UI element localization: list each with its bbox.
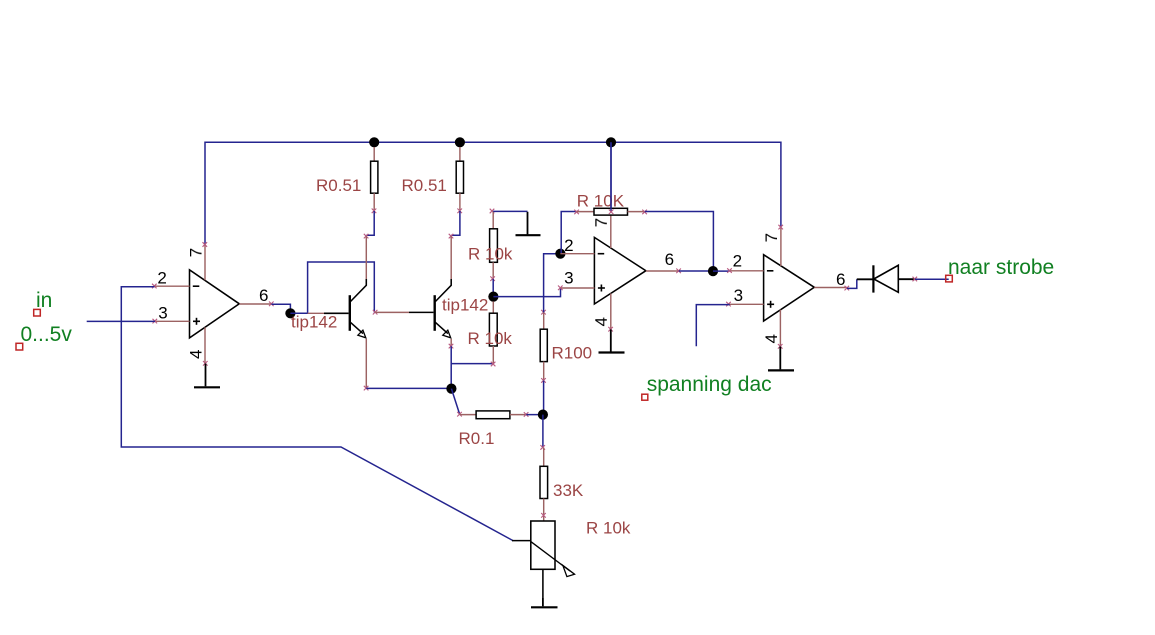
- svg-text:R 10k: R 10k: [468, 245, 513, 264]
- wire: diode to naar strobe terminal: [915, 278, 949, 280]
- svg-text:in: in: [36, 289, 52, 312]
- svg-text:4: 4: [187, 350, 206, 359]
- wire: R0.51 (right) to Q2 collector: [451, 211, 460, 235]
- wire: base node loop over Q1 to Q2 base: [290, 262, 374, 313]
- svg-text:6: 6: [259, 286, 268, 305]
- op-amp U2: [558, 212, 681, 332]
- diode D1: [857, 265, 917, 292]
- wire: R 10K right to U2 output node: [645, 212, 714, 272]
- svg-text:R0.51: R0.51: [402, 176, 447, 195]
- svg-text:4: 4: [592, 317, 611, 326]
- svg-text:R100: R100: [552, 344, 593, 363]
- wire: U2 pin7 over R 10K body: [610, 142, 612, 212]
- svg-text:R0.51: R0.51: [316, 176, 361, 195]
- resistor R0.51 (left): [371, 147, 378, 213]
- wire: R 10k upper to divider node: [492, 279, 494, 297]
- ground at potentiometer: [531, 598, 558, 607]
- wire: U1 pin 6 to Q1 base node: [272, 304, 291, 313]
- svg-text:7: 7: [187, 248, 206, 257]
- junction on top bus at R2: [455, 137, 465, 147]
- junction dot: emitter node: [446, 384, 456, 394]
- resistor R100: [540, 310, 547, 383]
- svg-text:R 10k: R 10k: [468, 329, 513, 348]
- svg-text:4: 4: [762, 334, 781, 343]
- svg-text:R 10k: R 10k: [586, 519, 631, 538]
- svg-text:tip142: tip142: [291, 313, 337, 332]
- svg-text:R0.1: R0.1: [459, 429, 495, 448]
- terminal square naar strobe: [946, 275, 953, 282]
- svg-text:2: 2: [564, 236, 573, 255]
- svg-text:2: 2: [157, 269, 166, 288]
- svg-text:2: 2: [733, 252, 742, 271]
- junction dot: Q1 base node: [285, 308, 295, 318]
- svg-text:7: 7: [592, 218, 611, 227]
- wire: emitter node to R0.1: [451, 389, 459, 415]
- junction dot: U2 output node: [708, 266, 718, 276]
- wire: output node to U3 pin 2: [713, 270, 730, 272]
- svg-text:tip142: tip142: [442, 296, 488, 315]
- wire: U2 pin 7 to top bus: [610, 142, 612, 214]
- potentiometer R 10k: [512, 521, 575, 598]
- wire: node down to 33K: [542, 415, 544, 448]
- wire: R0.51 (left) to Q1 collector: [366, 211, 374, 235]
- wire: top supply bus: [205, 142, 781, 244]
- svg-text:6: 6: [665, 250, 674, 269]
- resistor R 10k (lower): [489, 301, 497, 366]
- wire: U2 pin 6 to output node: [679, 270, 713, 272]
- junction on top bus at U2 pin7: [606, 137, 616, 147]
- op-amp U1: [152, 242, 274, 365]
- ground at U2 pin 4: [599, 329, 625, 352]
- wire: R100 bottom to R0.1 node: [543, 381, 545, 415]
- wire: input 0...5v to U1 pin 3: [87, 320, 155, 322]
- terminal square in: [34, 309, 41, 316]
- terminal square 0...5v: [16, 343, 23, 350]
- wire: U3 pin 6 to diode: [847, 279, 857, 288]
- resistor R0.1: [457, 411, 528, 419]
- resistor 33K: [540, 445, 548, 521]
- svg-text:3: 3: [158, 303, 167, 322]
- junction dot: U2 pin 2 node: [555, 249, 565, 259]
- junction dot: divider node: [488, 292, 498, 302]
- wire: feedback U1 pin 2 to potentiometer wiper: [121, 287, 513, 541]
- wire: U3 pin 3 stub: [696, 305, 729, 347]
- transistor Q1 tip142: [308, 234, 369, 391]
- resistor R 10K (feedback): [574, 208, 647, 215]
- svg-text:R 10K: R 10K: [577, 192, 625, 211]
- transistor Q2 tip142: [373, 234, 454, 349]
- svg-text:3: 3: [734, 286, 743, 305]
- wire: Q1 emitter to Q2 emitter node: [366, 387, 451, 389]
- junction dot: R0.1/R100/33K node: [538, 410, 548, 420]
- wire: divider node to U2 pin 3: [493, 288, 560, 297]
- svg-text:7: 7: [762, 233, 781, 242]
- svg-text:spanning dac: spanning dac: [647, 373, 772, 396]
- svg-text:6: 6: [836, 270, 845, 289]
- svg-text:33K: 33K: [553, 481, 584, 500]
- op-amp U3: [726, 225, 849, 349]
- ground at U3 pin 4: [768, 347, 794, 371]
- junction on top bus at R1: [369, 137, 379, 147]
- U2 pin 7 connection marker: [609, 210, 614, 215]
- svg-text:naar strobe: naar strobe: [948, 256, 1054, 279]
- resistor R0.51 (right): [456, 147, 463, 213]
- wire: R 10k upper to ground: [493, 210, 527, 212]
- resistor R 10k (upper, to ground): [490, 209, 498, 281]
- wire: U2 pin2 node up to R 10K feedback left: [561, 212, 577, 254]
- svg-text:3: 3: [564, 269, 573, 288]
- wire: R100 top to U2 pin 2 node: [544, 254, 561, 313]
- wire: R0.1 to R100/33K node: [526, 414, 543, 416]
- svg-text:0...5v: 0...5v: [21, 323, 73, 346]
- ground near R 10k upper: [516, 212, 541, 235]
- terminal square spanning dac: [642, 394, 648, 400]
- ground at U1 pin 4: [194, 364, 220, 388]
- wire: Q2 emitter down and over to R 10k lower: [451, 346, 493, 388]
